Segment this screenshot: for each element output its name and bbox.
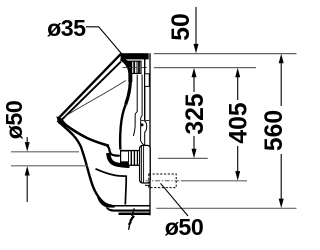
reference line A (top rim level) [154,53,297,55]
reference line C (outlet spigot centerline level) [158,157,208,159]
flush spreader fitting [130,61,141,73]
fixing boss bump [145,121,147,146]
dimension 405 top arrow [235,68,240,78]
leader line for 35 [86,27,123,55]
fixing hole dot [141,123,144,126]
dimension 325 top arrow [192,68,197,78]
pedestal front inner line [63,126,105,204]
outlet spigot (ribbed) [120,150,140,166]
mounting recess rectangle [145,74,150,87]
base middle band [106,207,150,212]
dimension 405 vertical line [237,76,239,100]
rim channel fill at spreader corner [122,59,130,69]
pedestal foot blob [98,196,114,208]
dimension 560 top arrow [279,54,284,64]
svg-text:560: 560 [261,110,288,151]
svg-text:ø35: ø35 [47,15,86,41]
svg-text:ø50: ø50 [165,214,203,240]
rim back channel curve [121,59,130,82]
breakline lightning symbol [132,208,135,216]
base bottom band [119,213,151,216]
wall drain pipe (dashed, concealed) [149,174,176,188]
pedestal interior curve and back vertical [96,169,127,205]
inlet centerline [123,67,148,69]
rim front tip [56,116,67,125]
dimension 560 bottom arrow [279,199,284,209]
trap bottom mass [108,153,129,166]
left dim bottom arrow [25,166,30,176]
rim outer top edge (diagonal) [58,54,121,119]
leader line for bottom 50 [161,183,189,216]
base top line [103,203,151,207]
dimension 405 bottom arrow [235,171,240,181]
left dim top arrow [25,142,30,152]
reference line B (inlet centerline level) [154,67,256,69]
fixing centerline stub [140,120,150,122]
drain pipe centerline [146,180,184,182]
wall line [149,53,151,215]
trap sump pocket outline [104,144,120,156]
rim inner top edge (diagonal) [60,62,121,122]
svg-text:ø50: ø50 [1,101,27,139]
left dim line top (spigot top) [11,151,79,153]
svg-text:405: 405 [226,102,253,143]
bowl bottom curve [61,121,110,146]
pedestal front outer curve [58,121,112,206]
dimension 50 arrow [194,44,199,54]
urinal top rim bar [121,53,149,59]
water trace line [65,81,126,117]
dimension 50 vertical line [195,7,197,45]
reference line D (wall drain centerline level) [182,180,247,182]
urinal back wall vertical [144,59,146,122]
svg-text:325: 325 [182,93,209,134]
dimension 325 bottom arrow [192,149,197,159]
left dim line bottom (spigot bottom) [11,165,88,167]
svg-text:50: 50 [168,13,195,40]
left dim vertical line [26,137,28,144]
dimension 560 vertical line [280,62,282,106]
dimension 325 vertical line [193,76,195,92]
bowl back wall curve [126,81,131,105]
back wall inner step line [133,75,137,137]
reference line E (floor level) [156,207,296,209]
outlet wall flange [140,145,151,185]
